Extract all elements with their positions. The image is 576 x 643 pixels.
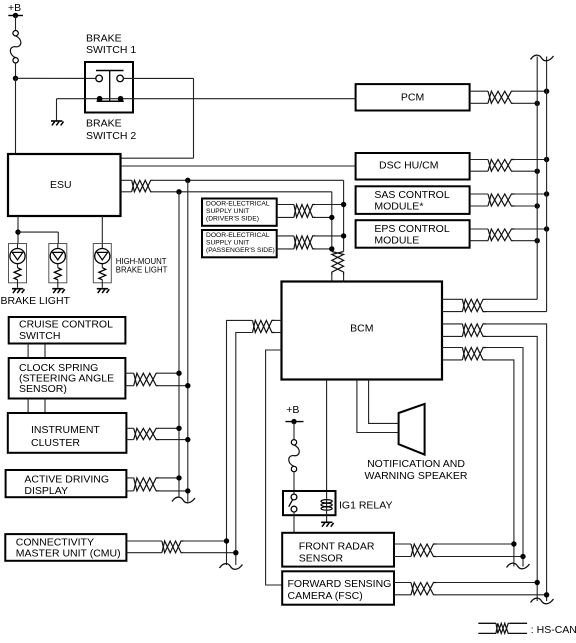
label door unit passenger [206, 232, 275, 254]
svg-text:INSTRUMENT: INSTRUMENT [31, 424, 100, 436]
wire [28, 399, 45, 414]
svg-text:BRAKE: BRAKE [86, 118, 122, 130]
CRUISE CONTROL SWITCH box [9, 317, 126, 344]
svg-text:FORWARD SENSING: FORWARD SENSING [288, 578, 392, 590]
node [15, 229, 20, 234]
twisted pair door passenger [294, 236, 316, 249]
wire bottom contacts line [57, 98, 356, 100]
wire [515, 193, 547, 195]
switch contact right bottom [118, 96, 124, 102]
pair end curl [172, 497, 195, 503]
svg-text:: HS-CAN: : HS-CAN [531, 624, 576, 636]
wire [515, 240, 537, 242]
label BRAKE SWITCH 1 [86, 33, 136, 57]
label CRUISE CONTROL SWITCH [19, 319, 113, 342]
node [185, 178, 190, 183]
brake light lamp 1 [9, 244, 27, 294]
relay switch blade [289, 499, 293, 506]
svg-text:SENSOR: SENSOR [299, 552, 344, 564]
label FORWARD SENSING CAMERA (FSC) [288, 578, 392, 602]
node [176, 426, 181, 431]
node [176, 371, 181, 376]
wire [394, 544, 411, 557]
node [185, 383, 190, 388]
node [520, 554, 525, 559]
wire [101, 216, 103, 244]
battery positive terminal [8, 13, 23, 18]
wire ESU to DSC [121, 165, 356, 167]
label SAS CONTROL MODULE* [374, 189, 449, 213]
wire [15, 78, 17, 154]
wire [315, 235, 343, 237]
label ESU [50, 179, 72, 191]
+B relay label [286, 404, 299, 416]
svg-text:BRAKE LIGHT: BRAKE LIGHT [116, 266, 168, 275]
label FRONT RADAR SENSOR [299, 541, 375, 565]
wire [277, 205, 294, 218]
wire [331, 192, 333, 252]
wire [125, 373, 133, 386]
wire [126, 478, 133, 491]
wire [515, 205, 537, 207]
wire [437, 543, 514, 545]
wire [159, 427, 179, 429]
relay contact upper [291, 494, 297, 500]
twisted pair EPS [488, 229, 515, 241]
high-mount brake light lamp [93, 244, 111, 294]
wire [315, 216, 331, 218]
twisted pair BCM-CMU [253, 320, 275, 332]
CONNECTIVITY MASTER UNIT box [5, 534, 126, 561]
svg-text:SAS CONTROL: SAS CONTROL [374, 189, 449, 201]
fusible link relay [289, 440, 300, 472]
EPS CONTROL MODULE box [356, 220, 470, 248]
wire [357, 380, 399, 433]
wire [437, 556, 523, 558]
switch contact right top [117, 75, 124, 82]
node [544, 89, 549, 94]
node [535, 203, 540, 208]
node [176, 475, 181, 480]
node [329, 215, 334, 220]
ESU box [8, 154, 121, 216]
svg-text:FRONT RADAR: FRONT RADAR [299, 541, 375, 553]
wire [184, 540, 227, 542]
HS-CAN bus line [536, 57, 538, 300]
switch contact left top [96, 75, 103, 82]
wire [28, 344, 45, 359]
svg-text:BCM: BCM [350, 323, 373, 335]
wire [15, 63, 17, 78]
node [224, 538, 229, 543]
twisted pair CMU [162, 541, 184, 553]
twisted pair clock spring [134, 373, 160, 386]
node [341, 202, 346, 207]
node junction +B [13, 76, 18, 81]
wire [486, 360, 514, 567]
wire [486, 336, 537, 601]
node [535, 101, 540, 106]
twisted pair BCM bus [462, 299, 486, 311]
twisted pair instrument cluster [134, 428, 160, 439]
twisted pair radar [411, 544, 437, 557]
svg-text:CRUISE CONTROL: CRUISE CONTROL [19, 319, 113, 331]
svg-text:+B: +B [8, 2, 21, 14]
+B power label [8, 2, 21, 14]
wire [227, 320, 253, 565]
svg-text:EPS CONTROL: EPS CONTROL [374, 223, 449, 235]
bus top curl [531, 55, 554, 61]
node [511, 541, 516, 546]
wire [343, 180, 345, 251]
twisted pair FSC [411, 583, 437, 595]
label PCM [401, 91, 424, 103]
svg-text:(PASSENGER'S SIDE): (PASSENGER'S SIDE) [206, 247, 275, 254]
fusible link [10, 31, 21, 64]
svg-text:ESU: ESU [50, 179, 72, 191]
FRONT RADAR SENSOR box [282, 533, 394, 567]
wire [326, 380, 328, 499]
svg-text:SWITCH: SWITCH [19, 330, 60, 342]
switch actuator bar [96, 71, 124, 102]
label BRAKE LIGHT [1, 295, 71, 307]
wire [293, 422, 295, 440]
label IG1 RELAY [339, 500, 393, 512]
wire [515, 170, 537, 172]
wire [442, 348, 462, 360]
twisted pair SAS [488, 194, 515, 206]
twisted pair BCM-radar [462, 348, 486, 360]
twisted pair to BCM [332, 252, 344, 276]
wire [236, 333, 253, 566]
wire [193, 78, 195, 158]
wire [515, 90, 547, 92]
label INSTRUMENT CLUSTER [31, 424, 100, 449]
wire [293, 472, 295, 494]
svg-text:BRAKE: BRAKE [86, 33, 122, 45]
svg-text:IG1 RELAY: IG1 RELAY [339, 500, 393, 512]
BCM box [282, 282, 443, 380]
node [185, 437, 190, 442]
wire [153, 179, 343, 181]
node [329, 246, 334, 251]
svg-text:+B: +B [286, 404, 299, 416]
svg-text:SWITCH 1: SWITCH 1 [86, 44, 136, 56]
wire [470, 194, 488, 206]
svg-text:CAMERA (FSC): CAMERA (FSC) [288, 590, 363, 602]
node [535, 169, 540, 174]
wire [486, 324, 547, 601]
node [535, 580, 540, 585]
wire [184, 552, 236, 554]
svg-text:PCM: PCM [401, 91, 424, 103]
wire [515, 102, 537, 104]
pair end curl CMU [220, 564, 243, 570]
svg-text:SWITCH 2: SWITCH 2 [86, 130, 136, 142]
legend twisted pair symbol [478, 623, 527, 633]
label CLOCK SPRING (STEERING ANGLE SENSOR) [19, 362, 114, 395]
INSTRUMENT CLUSTER box [8, 413, 127, 453]
wire [159, 385, 187, 387]
node [535, 238, 540, 243]
wire [159, 490, 187, 492]
wire vertical pair right [178, 192, 180, 498]
svg-text:DISPLAY: DISPLAY [24, 485, 68, 497]
wire [15, 16, 17, 31]
wire [126, 541, 161, 553]
wire [486, 311, 547, 313]
svg-text:MODULE: MODULE [374, 234, 419, 246]
wire [442, 299, 462, 311]
wire [470, 229, 488, 241]
DOOR-ELECTRICAL SUPPLY UNIT (PASSENGER'S SIDE) box [202, 230, 277, 257]
wire [470, 91, 488, 103]
label BCM [350, 323, 373, 335]
DSC HU/CM box [356, 153, 470, 180]
label BRAKE SWITCH 2 [86, 118, 136, 143]
wire [275, 320, 282, 332]
node [341, 233, 346, 238]
wire [369, 380, 399, 424]
twisted pair door driver [294, 205, 316, 218]
PCM box [356, 84, 470, 110]
ground IG1 relay [321, 522, 334, 526]
wire [126, 428, 133, 439]
wire [121, 157, 194, 159]
svg-text:MODULE*: MODULE* [374, 201, 423, 213]
FORWARD SENSING CAMERA box [282, 571, 394, 604]
wire [437, 594, 547, 596]
HS-CAN bus line [546, 57, 548, 312]
wire [326, 510, 328, 522]
wire [315, 248, 331, 250]
battery positive terminal relay [286, 419, 304, 424]
svg-text:DOOR-ELECTRICAL: DOOR-ELECTRICAL [206, 232, 270, 239]
wire [159, 477, 179, 479]
SAS CONTROL MODULE box [356, 186, 470, 214]
DOOR-ELECTRICAL SUPPLY UNIT (DRIVER'S SIDE) box [202, 199, 277, 226]
pair end curl radar [507, 563, 530, 569]
svg-text:DSC HU/CM: DSC HU/CM [379, 160, 439, 172]
svg-text:SUPPLY UNIT: SUPPLY UNIT [206, 240, 249, 247]
relay contact lower [291, 506, 297, 512]
wire [486, 348, 523, 567]
wire vertical pair left [187, 180, 189, 501]
wire [18, 232, 58, 243]
svg-text:MASTER UNIT (CMU): MASTER UNIT (CMU) [16, 548, 121, 560]
pair end curl FSC [531, 598, 554, 604]
wire [437, 582, 538, 584]
label ACTIVE DRIVING DISPLAY [24, 474, 109, 498]
label HIGH-MOUNT BRAKE LIGHT [116, 257, 168, 275]
node [544, 157, 549, 162]
wire [515, 159, 547, 161]
svg-text:ACTIVE DRIVING: ACTIVE DRIVING [24, 474, 109, 486]
node [233, 550, 238, 555]
wire [159, 439, 187, 441]
wire [123, 77, 193, 79]
label NOTIFICATION AND WARNING SPEAKER [365, 458, 468, 482]
twisted pair DSC [488, 160, 515, 172]
svg-text:NOTIFICATION AND: NOTIFICATION AND [367, 458, 465, 470]
node [544, 592, 549, 597]
ACTIVE DRIVING DISPLAY box [6, 470, 127, 497]
twisted pair PCM [488, 91, 515, 103]
label EPS CONTROL MODULE [374, 223, 449, 247]
wire [266, 350, 283, 585]
svg-text:WARNING SPEAKER: WARNING SPEAKER [365, 470, 468, 482]
CLOCK SPRING box [9, 358, 126, 399]
twisted pair ESU [132, 180, 154, 192]
svg-text:CLUSTER: CLUSTER [31, 437, 80, 449]
notification and warning speaker [399, 404, 425, 455]
wire [515, 228, 547, 230]
label door unit driver [206, 201, 270, 223]
IG1 relay box [283, 491, 336, 515]
wire [442, 324, 462, 337]
twisted pair active driving display [134, 478, 160, 491]
wire [332, 275, 344, 282]
wire [315, 204, 343, 206]
legend label HS-CAN [531, 624, 576, 636]
node [176, 189, 181, 194]
wire [486, 298, 537, 300]
wire [17, 216, 19, 244]
relay coil [321, 498, 332, 510]
brake light lamp 2 [49, 244, 67, 294]
wire [470, 160, 488, 172]
node [544, 191, 549, 196]
svg-text:SENSOR): SENSOR) [19, 383, 67, 395]
node [185, 488, 190, 493]
svg-text:DOOR-ELECTRICAL: DOOR-ELECTRICAL [206, 201, 270, 208]
wire [121, 180, 132, 192]
svg-text:BRAKE LIGHT: BRAKE LIGHT [1, 295, 71, 307]
wire [56, 99, 58, 121]
svg-text:(DRIVER'S SIDE): (DRIVER'S SIDE) [206, 215, 259, 222]
wire [394, 583, 411, 595]
wire [153, 191, 331, 193]
wire [159, 372, 179, 374]
ground brake switch [51, 121, 64, 125]
brake switch box [85, 62, 133, 113]
label DSC HU/CM [379, 160, 439, 172]
svg-text:SUPPLY UNIT: SUPPLY UNIT [206, 208, 249, 215]
switch contact left bottom [97, 96, 103, 102]
node [544, 226, 549, 231]
wire [16, 77, 96, 79]
twisted pair BCM-FSC [462, 324, 486, 337]
wire [277, 236, 294, 249]
label CONNECTIVITY MASTER UNIT (CMU) [16, 537, 121, 560]
wire [293, 512, 295, 533]
